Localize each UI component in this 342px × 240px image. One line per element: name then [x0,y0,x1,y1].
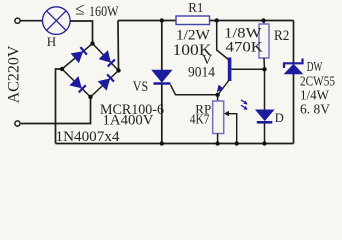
svg-text:VS: VS [133,79,148,95]
zener diode DW (2CW55) [284,59,303,74]
svg-text:160W: 160W [89,4,119,20]
resistor R2 top stub [263,21,265,25]
node: RP bottom / bottom rail [215,141,219,145]
svg-text:D: D [275,111,284,125]
node: VS cathode / bottom rail [160,141,164,145]
node: R2 / top rail [261,18,265,22]
wire: transistor collector to top rail [217,21,229,61]
wire: bridge DC+ (right vertex) up to top rail [117,21,120,71]
svg-text:R1: R1 [188,1,203,16]
node: gate / emitter / RP [215,93,219,97]
node: bridge AC-top junction [90,41,94,45]
bridge diode upper-left (1N4007) [72,47,87,62]
svg-text:1/4W: 1/4W [300,88,330,103]
svg-text:R2: R2 [274,28,289,44]
thyristor VS gate wire [171,85,218,95]
node: base / R2 / photodiode [262,67,266,71]
wire: bottom rail (DC-) [56,143,294,145]
wire: zener DW to bottom rail [293,74,295,144]
bridge arm wire upper-left [62,44,93,70]
lamp H [43,7,71,35]
node: VS anode / top rail [160,18,164,22]
photodiode D light arrows [241,100,248,110]
thyristor VS cathode wire [161,84,163,144]
terminal (AC input, top) [15,18,20,23]
wire: gate node down to RP [217,95,219,101]
svg-text:4K7: 4K7 [190,112,210,127]
bridge arm wire lower-right [91,71,119,98]
resistor R2 bottom stub [263,58,266,69]
photodiode D [256,110,274,124]
svg-text:1A400V: 1A400V [103,113,154,129]
transistor V base bar [228,58,232,82]
resistor R2 [259,24,269,58]
node: photodiode / bottom rail [262,141,266,145]
svg-text:9014: 9014 [188,64,215,80]
node: bridge AC-bottom junction [88,95,92,99]
svg-text:6. 8V: 6. 8V [300,103,330,118]
wire: RP bottom to rail [217,134,219,144]
wire: base node down to photodiode D [264,69,266,110]
resistor R1 [176,16,210,25]
wire: bottom terminal to bridge AC-bottom vertex [21,97,91,124]
svg-text:1N4007x4: 1N4007x4 [56,129,120,145]
svg-text:470K: 470K [226,40,264,56]
svg-text:≤: ≤ [75,0,84,19]
potentiometer RP body [213,101,224,134]
thyristor VS anode wire [161,21,163,71]
transistor V base wire [231,68,264,70]
node: bridge DC-left junction [60,67,64,71]
bridge arm wire lower-left [62,69,91,97]
svg-text:2CW55: 2CW55 [300,74,335,89]
bridge diode lower-right (1N4007) [99,74,114,89]
bridge diode upper-right (1N4007) [100,51,115,66]
wire: bridge DC- (left vertex) down to bottom rail [56,69,63,144]
svg-text:DW: DW [307,60,323,75]
RP wiper arrow [224,111,237,144]
wire: top rail corner down to zener DW [293,21,295,64]
bridge diode lower-left (1N4007) [70,77,85,92]
svg-text:H: H [47,34,56,49]
svg-text:AC220V: AC220V [6,45,23,103]
wire: photodiode D to bottom rail [264,124,266,144]
node: bridge DC-right junction [116,68,120,72]
bridge arm wire upper-right [93,44,119,71]
node: collector / top rail [215,18,219,22]
thyristor VS (MCR100-6) [152,70,171,83]
wire: top rail (DC+) [118,20,294,22]
terminal (AC input, bottom) [15,121,20,126]
node: wiper / bottom rail [235,141,239,145]
wire: lamp to bridge AC-top vertex [71,21,93,44]
wire: top terminal to lamp [20,20,43,22]
transistor V emitter wire with arrow [217,80,230,96]
